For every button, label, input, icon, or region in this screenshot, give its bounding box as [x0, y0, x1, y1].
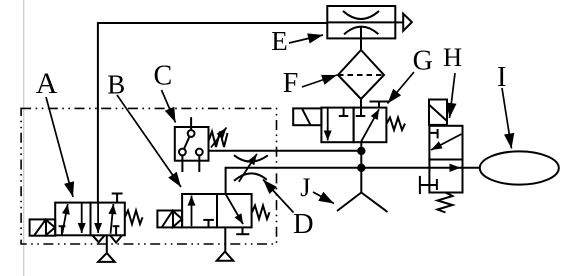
svg-text:D: D	[293, 209, 314, 240]
label E with leader arrow	[271, 26, 323, 56]
valve G body right position box	[354, 108, 387, 143]
valve H flow arrow to suction cup	[450, 164, 461, 172]
label C with leader arrow	[154, 60, 176, 122]
valve B exhaust line and open triangle	[217, 227, 234, 260]
svg-text:C: C	[154, 60, 173, 91]
valve A exhaust line and open triangle	[98, 235, 115, 262]
branch J Y-shaped line junction	[337, 193, 388, 213]
pressure switch C spring adjustment arrow	[211, 128, 227, 148]
label F with leader arrow	[283, 68, 337, 99]
valve B pilot box with pneumatic triangle	[157, 211, 182, 228]
adjustable throttle D arcs	[234, 155, 268, 181]
svg-text:E: E	[271, 26, 288, 56]
valve B body right position box	[217, 194, 252, 227]
valve G top blocked port	[370, 102, 390, 108]
valve B right box diagonal arrow	[226, 194, 243, 224]
valve A exhaust chevron right	[110, 235, 122, 242]
valve H lower left blocked port	[420, 176, 437, 194]
svg-text:H: H	[443, 42, 462, 72]
vacuum ejector E body	[327, 6, 395, 50]
valve A left box down arrow	[78, 203, 86, 233]
valve A left box tilted up arrow	[62, 204, 70, 233]
valve B left box blocked port T	[203, 220, 214, 228]
valve B body left position box	[182, 194, 217, 227]
valve A pilot box with pneumatic triangle	[30, 219, 56, 235]
node junction dot upper	[357, 147, 365, 155]
label A with leader arrow	[36, 67, 74, 197]
valve G body left position box	[321, 108, 353, 143]
filter F diamond	[338, 50, 384, 99]
svg-text:A: A	[36, 67, 58, 100]
exhaust triangle at ejector E outlet	[395, 14, 412, 31]
valve G pilot box	[293, 108, 321, 125]
node junction dot lower	[357, 164, 365, 172]
valve G right box diagonal arrow	[361, 109, 379, 142]
valve A top blocked port	[112, 194, 123, 203]
valve H upper position box	[429, 126, 462, 160]
valve H upper box diagonal arrow	[431, 134, 462, 150]
pressure switch C box	[175, 127, 209, 161]
valve A exhaust chevron left	[93, 235, 105, 242]
wire filter F to valve G top port	[360, 99, 362, 116]
valve G left box down arrow	[324, 108, 332, 141]
pressure switch C bottom-right contact circle and wire	[196, 149, 203, 172]
label G with leader arrow	[388, 46, 433, 104]
valve B left box up arrow	[188, 196, 196, 227]
valve A right box blocked port T	[113, 226, 120, 235]
svg-text:G: G	[413, 46, 433, 77]
pressure switch C adjustable spring	[209, 132, 228, 148]
pressure switch C bottom-left contact circle and wire	[179, 149, 186, 172]
valve G left box blocked port T	[339, 108, 349, 116]
valve H pilot box	[429, 100, 447, 125]
valve A return spring	[125, 211, 143, 225]
pressure switch C contact lever	[184, 136, 190, 149]
wire valve B outlet through throttle D and lower junction to valve H	[226, 168, 480, 194]
valve B bottom blocked port	[236, 227, 249, 234]
valve A right box down arrow from supply	[94, 203, 102, 233]
svg-text:B: B	[107, 69, 125, 99]
wire supply line from valve A up and across to ejector E	[98, 23, 327, 203]
suction pad I ellipse	[480, 151, 559, 184]
valve B return spring	[252, 206, 270, 220]
valve H lower position box	[429, 160, 462, 193]
valve H return spring	[438, 193, 453, 213]
label I with leader arrow	[497, 62, 514, 149]
throttle D adjustment arrow	[239, 154, 257, 182]
valve A left box blocked port T	[59, 226, 66, 235]
wire valve G bottom port down through junctions to branch J	[360, 142, 362, 192]
dash-dot enclosure box around valves A B	[21, 108, 276, 244]
valve A right box tilted up arrow	[108, 204, 116, 234]
valve A body left position box	[55, 203, 90, 236]
valve G right box blocked port T at filter line	[356, 115, 366, 117]
label B with leader arrow	[107, 69, 181, 187]
valve G return spring	[387, 118, 405, 131]
label D with leader arrow	[263, 180, 314, 241]
valve A body right position box	[91, 203, 125, 236]
faint page edge line	[23, 0, 25, 276]
label J with leader arrow	[300, 172, 334, 204]
svg-text:J: J	[300, 172, 310, 202]
label H with leader arrow	[443, 42, 462, 118]
pressure switch C top contact circle and stub	[188, 117, 195, 137]
svg-text:F: F	[283, 68, 299, 99]
wire pressure switch C output to upper junction	[209, 150, 362, 152]
valve H upper box blocked port	[429, 129, 438, 138]
